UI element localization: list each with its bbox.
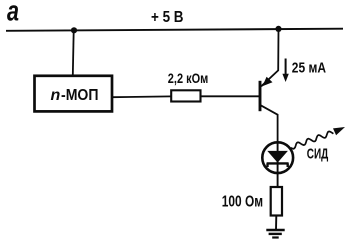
svg-text:СИД: СИД bbox=[307, 145, 329, 162]
LED D1 cathode bar bbox=[267, 163, 289, 167]
light arrowhead bbox=[333, 127, 345, 135]
node junction left bbox=[71, 27, 77, 33]
wire +5V rail bbox=[6, 29, 343, 31]
svg-text:n: n bbox=[51, 87, 61, 104]
transistor Q1 emitter arrowhead bbox=[262, 77, 272, 86]
current arrow 25 mA shaft bbox=[285, 59, 287, 76]
LED D1 circle bbox=[262, 142, 293, 173]
wire box to resistor R1 bbox=[112, 95, 171, 98]
resistor R1 2.2 kOhm bbox=[171, 90, 200, 101]
svg-text:100 Ом: 100 Ом bbox=[222, 194, 263, 211]
LED D1 triangle bbox=[267, 151, 288, 163]
transistor Q1 base bar bbox=[259, 81, 262, 111]
node junction right bbox=[275, 26, 281, 32]
current arrow 25 mA head bbox=[282, 74, 288, 82]
wire resistor to transistor base bbox=[201, 95, 260, 97]
wire through LED bbox=[277, 142, 279, 187]
transistor Q1 collector wire to LED bbox=[261, 105, 278, 142]
light emission wavy arrow bbox=[291, 131, 334, 148]
svg-text:a: a bbox=[7, 0, 19, 27]
svg-text:-МОП: -МОП bbox=[61, 87, 99, 104]
svg-text:25 мА: 25 мА bbox=[292, 60, 327, 76]
transistor Q1 emitter wire to rail bbox=[261, 29, 278, 86]
svg-text:+ 5 В: + 5 В bbox=[151, 9, 184, 26]
n-MOP block U1 bbox=[35, 76, 113, 112]
svg-text:2,2 кОм: 2,2 кОм bbox=[168, 71, 209, 86]
wire resistor to ground bbox=[275, 216, 277, 230]
wire rail to n-MOP box bbox=[72, 30, 75, 75]
resistor R2 100 Ohm bbox=[271, 187, 282, 216]
ground bbox=[266, 229, 284, 232]
